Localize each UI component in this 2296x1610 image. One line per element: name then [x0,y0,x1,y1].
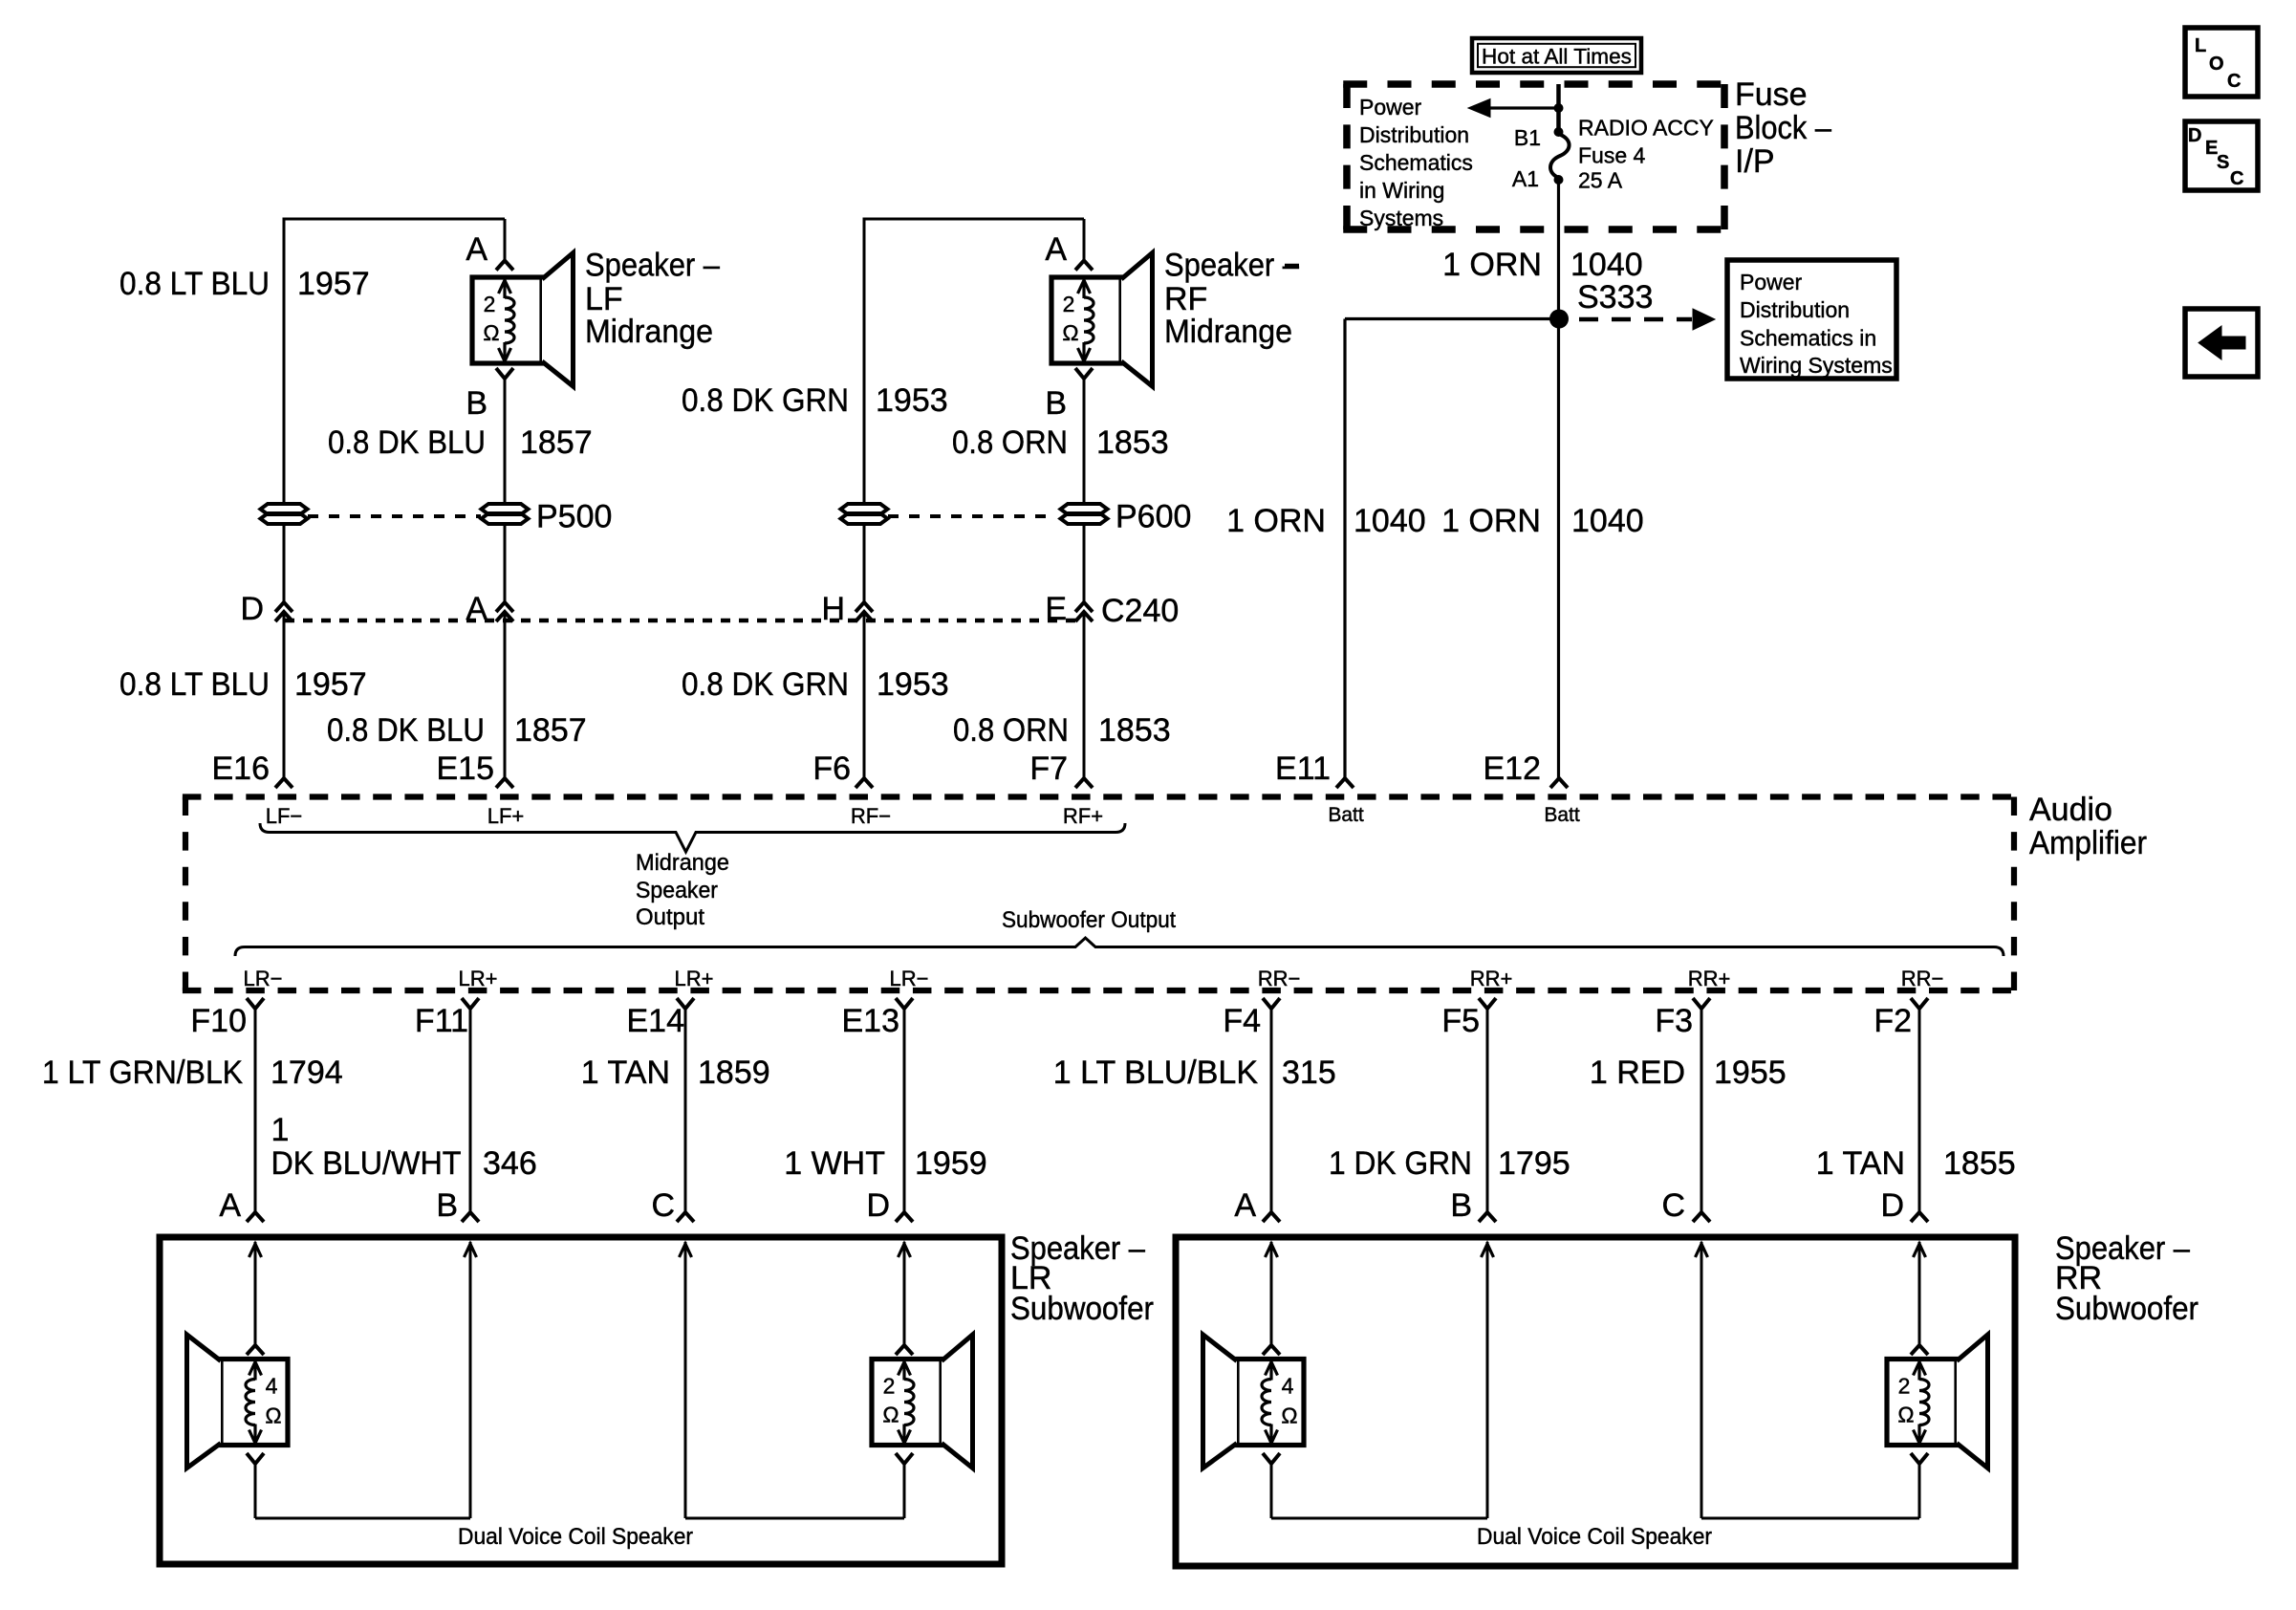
svg-text:E15: E15 [437,751,495,787]
svg-text:4: 4 [1282,1374,1294,1399]
svg-text:RR−: RR− [1901,967,1944,990]
svg-text:Schematics: Schematics [1359,150,1473,175]
svg-text:F4: F4 [1223,1003,1261,1039]
svg-text:1794: 1794 [271,1055,343,1091]
svg-text:1040: 1040 [1571,503,1644,539]
svg-text:1853: 1853 [1098,712,1171,749]
svg-text:O: O [2209,54,2224,75]
svg-text:LR−: LR− [244,967,283,990]
svg-text:315: 315 [1282,1055,1336,1091]
svg-text:Amplifier: Amplifier [2029,825,2147,861]
svg-text:1 ORN: 1 ORN [1442,247,1542,283]
svg-text:LR+: LR+ [675,967,714,990]
svg-text:D: D [2188,125,2201,146]
svg-text:Subwoofer Output: Subwoofer Output [1002,907,1176,933]
svg-text:1857: 1857 [514,712,587,749]
svg-text:1953: 1953 [877,666,949,703]
svg-text:H: H [821,591,845,627]
svg-text:Power: Power [1359,95,1422,120]
svg-text:0.8 DK BLU: 0.8 DK BLU [328,424,486,461]
svg-text:C: C [1661,1187,1685,1224]
svg-text:346: 346 [483,1145,537,1182]
svg-text:Subwoofer: Subwoofer [1010,1291,1154,1327]
svg-text:LF−: LF− [266,804,303,828]
svg-text:RR+: RR+ [1688,967,1731,990]
svg-text:E16: E16 [212,751,271,787]
svg-text:1855: 1855 [1943,1145,2016,1182]
svg-text:Fuse: Fuse [1735,76,1808,113]
svg-text:F3: F3 [1655,1003,1693,1039]
svg-text:Hot at All Times: Hot at All Times [1482,45,1632,69]
svg-text:E: E [1045,591,1067,627]
svg-text:RR+: RR+ [1470,967,1513,990]
svg-text:Ω: Ω [1897,1403,1914,1427]
svg-text:A: A [1234,1187,1256,1224]
svg-text:Batt: Batt [1544,804,1580,826]
svg-text:1959: 1959 [915,1145,987,1182]
svg-text:Midrange: Midrange [636,850,729,876]
svg-text:1795: 1795 [1498,1145,1570,1182]
svg-text:Wiring Systems: Wiring Systems [1740,353,1893,378]
svg-text:RR−: RR− [1258,967,1301,990]
svg-text:Batt: Batt [1328,804,1364,826]
svg-text:in Wiring: in Wiring [1359,178,1444,203]
svg-text:Ω: Ω [483,320,499,345]
svg-text:1 TAN: 1 TAN [581,1055,670,1091]
svg-text:F10: F10 [190,1003,247,1039]
svg-text:F5: F5 [1441,1003,1480,1039]
svg-text:1957: 1957 [294,666,367,703]
svg-text:2: 2 [1898,1374,1911,1399]
svg-text:D: D [240,591,264,627]
svg-text:RF+: RF+ [1063,804,1103,828]
svg-text:Schematics in: Schematics in [1740,326,1876,351]
svg-text:B: B [1450,1187,1472,1224]
svg-text:0.8 DK GRN: 0.8 DK GRN [682,666,849,703]
svg-text:1955: 1955 [1714,1055,1787,1091]
svg-text:B1: B1 [1514,125,1541,150]
svg-text:1 DK GRN: 1 DK GRN [1329,1145,1472,1182]
svg-text:1040: 1040 [1570,247,1643,283]
svg-text:A: A [1045,231,1067,268]
svg-text:E13: E13 [842,1003,900,1039]
svg-text:B: B [436,1187,458,1224]
svg-text:LR−: LR− [890,967,929,990]
svg-text:0.8 ORN: 0.8 ORN [953,712,1069,749]
svg-text:RF: RF [1164,281,1207,317]
svg-text:P600: P600 [1116,499,1191,535]
svg-text:A: A [466,231,487,268]
svg-text:2: 2 [484,292,496,316]
svg-text:Midrange: Midrange [585,314,713,350]
svg-text:1 ORN: 1 ORN [1441,503,1541,539]
svg-text:Subwoofer: Subwoofer [2055,1291,2199,1327]
svg-text:D: D [1880,1187,1904,1224]
svg-text:1859: 1859 [698,1055,770,1091]
svg-text:Midrange: Midrange [1164,314,1292,350]
svg-text:1953: 1953 [876,382,948,419]
svg-text:P500: P500 [536,499,612,535]
svg-text:F2: F2 [1874,1003,1912,1039]
svg-text:F11: F11 [415,1003,468,1039]
svg-text:0.8 ORN: 0.8 ORN [952,424,1068,461]
svg-text:D: D [866,1187,890,1224]
svg-text:4: 4 [266,1374,278,1399]
svg-text:B: B [1045,385,1067,422]
svg-text:0.8 LT BLU: 0.8 LT BLU [119,266,270,302]
svg-text:E14: E14 [627,1003,685,1039]
svg-text:I/P: I/P [1735,143,1775,180]
svg-text:B: B [466,385,487,422]
svg-text:25 A: 25 A [1578,168,1623,193]
svg-text:S333: S333 [1577,279,1653,315]
svg-text:Systems: Systems [1359,206,1443,230]
svg-text:Speaker –: Speaker – [1164,248,1299,284]
svg-text:S: S [2217,152,2229,173]
svg-text:1 ORN: 1 ORN [1226,503,1326,539]
svg-text:Dual Voice Coil Speaker: Dual Voice Coil Speaker [1477,1524,1712,1550]
svg-text:C240: C240 [1101,593,1179,629]
svg-text:Ω: Ω [1281,1403,1297,1428]
svg-text:1 TAN: 1 TAN [1816,1145,1905,1182]
svg-text:RF−: RF− [851,804,891,828]
svg-text:Output: Output [636,904,704,930]
svg-text:1 WHT: 1 WHT [784,1145,885,1182]
svg-text:RADIO ACCY: RADIO ACCY [1578,116,1714,141]
svg-text:C: C [2230,168,2243,189]
svg-text:Speaker –: Speaker – [585,248,720,284]
svg-text:Distribution: Distribution [1740,297,1850,322]
svg-text:1 RED: 1 RED [1590,1055,1685,1091]
svg-text:Audio: Audio [2029,792,2112,828]
svg-text:Ω: Ω [1062,320,1078,345]
svg-text:LF: LF [585,281,623,317]
svg-text:C: C [2227,71,2241,92]
svg-text:A1: A1 [1512,166,1539,191]
svg-text:2: 2 [1063,292,1075,316]
svg-text:1040: 1040 [1354,503,1426,539]
svg-text:1: 1 [271,1112,290,1148]
svg-text:0.8 LT BLU: 0.8 LT BLU [119,666,270,703]
svg-text:1957: 1957 [297,266,370,302]
svg-text:Ω: Ω [265,1403,281,1428]
svg-text:C: C [651,1187,675,1224]
svg-text:F6: F6 [812,751,851,787]
svg-text:F7: F7 [1029,751,1068,787]
svg-text:1 LT GRN/BLK: 1 LT GRN/BLK [42,1055,243,1091]
svg-text:Block –: Block – [1735,110,1831,146]
svg-text:DK BLU/WHT: DK BLU/WHT [271,1145,462,1182]
svg-text:0.8 DK GRN: 0.8 DK GRN [682,382,849,419]
svg-text:Power: Power [1740,270,1803,294]
svg-text:Ω: Ω [882,1403,899,1427]
svg-text:Distribution: Distribution [1359,122,1469,147]
svg-text:1 LT BLU/BLK: 1 LT BLU/BLK [1053,1055,1259,1091]
svg-text:1853: 1853 [1096,424,1169,461]
svg-text:LF+: LF+ [487,804,525,828]
svg-text:L: L [2195,35,2206,56]
svg-text:1857: 1857 [520,424,593,461]
svg-text:0.8 DK BLU: 0.8 DK BLU [327,712,485,749]
svg-text:E12: E12 [1484,751,1542,787]
svg-text:Fuse 4: Fuse 4 [1578,143,1646,168]
svg-text:E11: E11 [1275,751,1331,787]
svg-text:2: 2 [883,1374,896,1399]
svg-text:LR+: LR+ [459,967,498,990]
svg-text:Speaker: Speaker [636,878,718,903]
svg-text:Dual Voice Coil Speaker: Dual Voice Coil Speaker [458,1524,693,1550]
svg-text:A: A [219,1187,241,1224]
